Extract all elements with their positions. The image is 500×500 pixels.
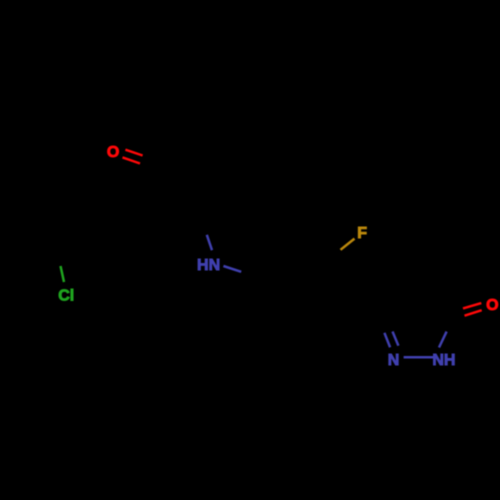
C5=O double bond lower half (red): [465, 310, 482, 316]
C-Cl bond half (green): [61, 266, 65, 282]
C=O double bond lower half (red): [123, 157, 141, 163]
C5=O double bond upper half (red): [463, 303, 481, 308]
C-N bond half up (blue): [207, 235, 212, 250]
svg-text:O: O: [107, 144, 119, 161]
C=O double bond upper half (red): [125, 150, 142, 156]
N1-C5 bond half (blue): [439, 332, 447, 348]
svg-text:NH: NH: [432, 352, 455, 369]
N2-N1 single bond (blue): [404, 356, 433, 359]
svg-text:HN: HN: [197, 257, 220, 274]
C3=N2 double bond main half (blue): [384, 333, 390, 348]
N-C(aryl) bond half right (blue): [223, 266, 241, 272]
C3=N2 double bond inner half (blue): [393, 332, 399, 346]
svg-text:O: O: [486, 297, 498, 314]
C-F bond half (goldenrod): [341, 239, 355, 250]
svg-text:Cl: Cl: [58, 288, 74, 305]
svg-text:F: F: [357, 225, 367, 242]
svg-text:N: N: [388, 352, 400, 369]
